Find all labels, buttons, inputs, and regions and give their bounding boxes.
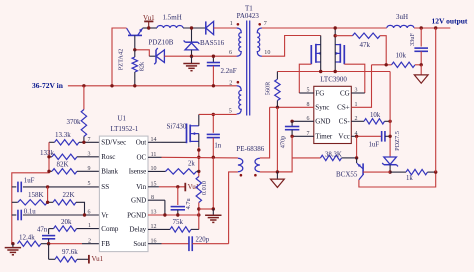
wire T2 right winding to junction [260, 171, 292, 173]
svg-text:1: 1 [88, 223, 91, 229]
node 47k tap junction [334, 34, 337, 37]
svg-text:6: 6 [88, 209, 91, 215]
svg-text:LTC3900: LTC3900 [320, 75, 347, 83]
wire PGND row pin 13 [148, 210, 199, 216]
wire Q3 gate to FG [299, 64, 311, 93]
svg-text:SS: SS [101, 183, 109, 191]
transformer T1 PA0423 labels [237, 4, 260, 20]
node PZTA42 base junction [133, 48, 136, 51]
svg-text:Isense: Isense [129, 168, 147, 176]
node output row dots [420, 26, 438, 29]
transistor Q1 PZTA42 [117, 28, 143, 70]
svg-text:1n: 1n [214, 142, 221, 149]
wire Vcc column to BCX55 [356, 136, 358, 158]
inductor L2 3uH [387, 13, 414, 28]
resistor R5 133k [40, 149, 99, 159]
wire FG pin 5 stub [299, 92, 314, 94]
svg-text:82k: 82k [139, 61, 146, 71]
ground GND1 (below zener row) [183, 56, 199, 70]
zener diode D2 (vertical, to row below) [184, 28, 200, 56]
svg-text:1.5mH: 1.5mH [163, 14, 182, 22]
wire secondary top row (T1 pin7 to 3uH) [262, 27, 387, 29]
svg-text:75k: 75k [173, 218, 184, 226]
svg-text:U1: U1 [118, 114, 127, 122]
node 1uF right junction [388, 135, 391, 138]
wire T1 pin10 to forward FET drain [262, 36, 321, 57]
svg-text:2.2nF: 2.2nF [221, 67, 237, 75]
node zener bottom junction [388, 170, 391, 173]
wire GND pin 6 stub [292, 120, 314, 122]
node zener tap on top rail [190, 26, 193, 29]
svg-text:Vcc: Vcc [338, 133, 349, 141]
power port Vu1 (bottom left) [89, 255, 104, 264]
svg-text:1k: 1k [406, 175, 413, 182]
svg-text:2k: 2k [188, 160, 195, 167]
op-amp U2 LTC3900 sync rectifier controller box [314, 75, 352, 143]
resistor R3 370k [67, 86, 87, 143]
node 1n bottom on OC row [212, 156, 215, 159]
transformer T2 left winding [238, 158, 243, 171]
power port Vu1 (Vin) [185, 183, 199, 192]
svg-text:OC: OC [136, 154, 146, 162]
op-amp U1 LT1952-1 controller box [99, 114, 148, 251]
wire Out pin 14 to Si7430 gate [148, 137, 187, 143]
resistor R7 158K [12, 191, 48, 205]
svg-text:PDZ7.5: PDZ7.5 [394, 131, 401, 151]
ground GND4 (secondary, triangle) [414, 65, 428, 83]
node 1n top [212, 113, 215, 116]
resistor R16 10k (output) [372, 51, 422, 67]
svg-text:8: 8 [151, 195, 154, 201]
svg-text:13.3k: 13.3k [55, 131, 71, 139]
wire BAS516 to T1 pin 1 [214, 27, 237, 29]
transformer T1 lower primary winding pins 2-5 [229, 81, 241, 115]
node T1 pin7 polarity dot [258, 23, 261, 26]
svg-text:GND: GND [315, 118, 330, 126]
resistor R2 82k (PZTA42 base bias) [132, 50, 146, 86]
svg-text:47k: 47k [360, 41, 371, 49]
capacitor C1 2.2nF [207, 56, 237, 86]
svg-text:BAS516: BAS516 [200, 39, 225, 47]
wire left bias column [12, 142, 49, 243]
wire Vin pin 15 to Vu1 [148, 182, 185, 188]
capacitor C5 1n (snubber) [207, 114, 222, 157]
resistor R13 0.010 current sense [196, 177, 208, 230]
resistor R14 75k (Delay) [148, 218, 199, 232]
svg-text:47n: 47n [37, 226, 48, 233]
svg-text:0.1u: 0.1u [24, 209, 36, 216]
svg-text:6: 6 [229, 50, 232, 56]
svg-text:15: 15 [151, 182, 157, 188]
power port 12V output [432, 16, 468, 25]
transistor Q5 BCX55 [336, 158, 363, 180]
wire Q4 gate to CG [344, 64, 365, 93]
svg-text:9: 9 [88, 166, 91, 172]
ground GND3 (power ground) [205, 209, 221, 222]
wire 36-72V input rail [68, 85, 237, 87]
svg-text:Vr: Vr [101, 211, 109, 219]
transformer T2 right winding [255, 158, 260, 171]
svg-text:CS+: CS+ [337, 104, 350, 112]
resistor R19 10k (CS-) [351, 112, 390, 124]
svg-text:38.3K: 38.3K [325, 151, 342, 158]
node 47k/10k junction [385, 63, 388, 66]
svg-text:PA0423: PA0423 [237, 12, 260, 20]
svg-text:12V output: 12V output [432, 16, 468, 25]
svg-text:470p: 470p [279, 136, 286, 149]
node Vcc junction [355, 135, 358, 138]
capacitor C9 470p [279, 121, 299, 148]
transformer T1 core [247, 21, 250, 116]
wire 1n ground drop [212, 157, 214, 209]
node 33uF/10k junction [420, 63, 423, 66]
wire BCX55 base row [363, 171, 390, 173]
svg-text:BCX55: BCX55 [336, 170, 358, 178]
capacitor C7 220p (Sout) [148, 236, 229, 251]
svg-text:5: 5 [229, 109, 232, 115]
svg-text:12.4k: 12.4k [19, 234, 35, 242]
svg-text:GND: GND [131, 197, 146, 205]
svg-text:4.7u: 4.7u [185, 197, 192, 209]
svg-text:LT1952-1: LT1952-1 [111, 125, 139, 133]
svg-text:370k: 370k [67, 118, 82, 126]
resistor R4 13.3k [49, 131, 99, 145]
node sense resistor ground tap [197, 207, 200, 210]
resistor R8 22K [48, 191, 85, 215]
wire 12V output right column [435, 28, 437, 172]
node Timer junction [290, 135, 293, 138]
svg-text:Sout: Sout [133, 240, 146, 248]
node 38.3K junction [355, 156, 358, 159]
wire output row [414, 27, 450, 29]
wire Vu1 top rail: emitter to inductor [143, 27, 157, 29]
wire Sync pin 8 row [270, 106, 314, 108]
resistor R10 12.4k (FB) [18, 234, 49, 247]
wire Vcc pin 4 row [351, 135, 381, 137]
svg-text:10: 10 [264, 50, 270, 56]
node T1 pin2 polarity dot [237, 81, 240, 84]
capacitor C2 1uF (soft-start) [12, 178, 48, 193]
node pin7 junction (370k/13.3k) [82, 137, 90, 144]
wire 560R column continues to PE winding row [276, 107, 278, 172]
node PGND row dots [163, 213, 200, 216]
svg-text:7: 7 [88, 137, 91, 143]
ground GND5 (triangle below T2) [271, 172, 285, 188]
svg-text:10: 10 [151, 166, 157, 172]
svg-text:1uF: 1uF [24, 178, 35, 185]
svg-text:20k: 20k [61, 218, 72, 226]
svg-text:12: 12 [151, 224, 157, 230]
capacitor C10 1uF (Vcc) [369, 131, 391, 148]
wire 12V clamp column [389, 72, 391, 157]
ground GND2 (bottom left) [5, 244, 21, 255]
svg-text:Delay: Delay [129, 226, 146, 234]
svg-text:FB: FB [101, 240, 110, 248]
svg-text:158K: 158K [28, 191, 44, 199]
svg-text:14: 14 [151, 137, 157, 143]
svg-text:Vu1: Vu1 [92, 255, 104, 263]
node T2 ground junction [276, 170, 279, 173]
svg-text:2: 2 [229, 81, 232, 87]
node T2 left polarity dot [240, 174, 243, 177]
resistor R6 82K [49, 161, 99, 174]
node rail junction dots [82, 84, 215, 87]
svg-text:3: 3 [88, 152, 91, 158]
pin numbers LTC3900 left [307, 88, 310, 137]
node source column dots [197, 148, 200, 173]
node zener anode / ground junction [190, 55, 193, 58]
node 2.2nF top junction [212, 55, 215, 58]
resistor R18 38.3K [292, 151, 357, 160]
transformer T1 primary winding pins 1-6 [229, 21, 241, 56]
wire secondary bottom rail [277, 71, 390, 73]
power port 36-72V in [32, 81, 64, 90]
transistor Q4 catch MOSFET (right) [335, 29, 344, 72]
svg-text:CS-: CS- [339, 118, 351, 126]
resistor R17 560R [265, 72, 281, 108]
pin numbers LTC3900 right [355, 88, 358, 137]
svg-text:Comp: Comp [101, 225, 119, 233]
resistor R9 20k (Comp) [49, 218, 100, 231]
wire Si7430 source column [198, 147, 200, 177]
svg-text:33uF: 33uF [409, 33, 416, 46]
svg-text:PE-68386: PE-68386 [236, 145, 264, 153]
svg-text:0.010: 0.010 [201, 181, 208, 195]
transistor Q3 forward MOSFET (left) [311, 36, 320, 72]
power port Vu1 (top) [143, 14, 155, 28]
wire row pin6 of T1 (zener/ground row) [164, 55, 236, 57]
wire CG pin 3 stub [351, 92, 365, 94]
svg-text:7: 7 [264, 21, 267, 27]
node 1k right junction [434, 170, 437, 173]
wire GND pin 8 jog to PGND row [148, 195, 165, 215]
wire 220p to PE-68386 left winding bottom [229, 172, 238, 244]
node Vin junction [176, 185, 179, 188]
wire inductor to diodes [183, 27, 206, 29]
svg-text:560R: 560R [265, 81, 272, 95]
wire top-left input riser from 36-72V rail to PZTA42 collector [112, 28, 127, 86]
svg-text:Vu1: Vu1 [188, 183, 200, 191]
svg-text:1uF: 1uF [369, 141, 380, 148]
svg-text:11: 11 [151, 152, 157, 158]
transistor Q2 Si7430 MOSFET [167, 114, 199, 147]
capacitor C3 0.1u [12, 209, 100, 221]
node rail FET source dots [319, 70, 337, 73]
svg-text:PDZ10B: PDZ10B [149, 38, 174, 46]
svg-text:13: 13 [151, 210, 157, 216]
svg-text:220p: 220p [196, 236, 210, 243]
svg-text:PGND: PGND [127, 211, 146, 219]
node T2 right polarity dot [254, 174, 257, 177]
transformer T2 PE-68386 label [236, 145, 264, 153]
svg-text:CG: CG [340, 89, 350, 97]
wire SS row to pin 5 [48, 181, 100, 187]
resistor R20 1k [390, 169, 436, 182]
wire Timer column down to PE winding row (vertical B) [277, 136, 292, 172]
node GND/470p junction [290, 120, 293, 123]
node Vr junction [83, 209, 91, 216]
node SS junction [46, 185, 49, 202]
inductor L1 1.5mH [157, 14, 183, 29]
svg-text:Sync: Sync [315, 104, 329, 112]
node 158K/22K junction [46, 201, 49, 204]
capacitor C6 4.7u [171, 187, 192, 215]
svg-text:82K: 82K [57, 161, 69, 169]
capacitor C4 47n [37, 226, 55, 243]
svg-text:97.6k: 97.6k [62, 248, 78, 256]
svg-text:PZTA42: PZTA42 [117, 49, 124, 71]
svg-text:1: 1 [230, 21, 233, 27]
svg-text:Rosc: Rosc [101, 153, 115, 161]
node Vu1 junction dot [147, 26, 150, 29]
svg-text:16: 16 [151, 238, 157, 244]
svg-text:Vin: Vin [136, 183, 147, 191]
capacitor C8 33uF [409, 28, 428, 65]
resistor R15 47k [335, 33, 386, 65]
node 82K left junction [47, 166, 90, 173]
node FB junction [47, 242, 50, 245]
svg-text:FG: FG [315, 89, 324, 97]
node 133k left junction [47, 152, 90, 159]
node catch FET drain junction [334, 26, 337, 29]
svg-text:Timer: Timer [315, 133, 333, 141]
svg-text:10k: 10k [370, 112, 381, 119]
svg-text:36-72V in: 36-72V in [32, 81, 64, 90]
svg-text:Blank: Blank [101, 168, 118, 176]
svg-text:10k: 10k [396, 51, 407, 59]
svg-text:Out: Out [136, 139, 147, 147]
wire OC row pin 11 to PE-68386 left winding [148, 152, 238, 158]
wire Timer pin 7 row [292, 135, 314, 137]
wire sync drop to PE winding (vertical A) [260, 107, 270, 158]
svg-text:SD/Vsec: SD/Vsec [101, 139, 126, 147]
node power ground junction [212, 207, 215, 210]
svg-text:133k: 133k [40, 149, 55, 157]
resistor R12 2k (Isense) [148, 160, 199, 174]
svg-text:22K: 22K [63, 191, 75, 199]
wire FB row to pin 2 [49, 238, 100, 244]
svg-text:2: 2 [88, 238, 91, 244]
svg-text:5: 5 [88, 181, 91, 187]
diode D1 BAS516 [200, 21, 225, 47]
node ground junction bottom-left [11, 242, 14, 245]
wire T1 pin5 row to Si7430 drain [199, 113, 237, 115]
resistor R11 97.6k (to Vu1) [49, 244, 89, 262]
node Sync junction (560R bottom) [276, 106, 279, 109]
wire to power ground [199, 208, 214, 210]
zener diode D4 PDZ7.5 [382, 131, 401, 172]
wire CS+ pin 1 routing [351, 65, 371, 108]
wire BCX55 collector loop [359, 172, 436, 187]
svg-text:3uH: 3uH [396, 13, 408, 21]
zener diode D3 PDZ10B [135, 38, 174, 64]
svg-text:Si7430: Si7430 [167, 122, 187, 130]
transformer T1 secondary winding pins 7-10 [257, 21, 270, 56]
node CS- junction on 12V column [388, 120, 391, 123]
node T1 pin1 polarity dot [237, 23, 240, 26]
